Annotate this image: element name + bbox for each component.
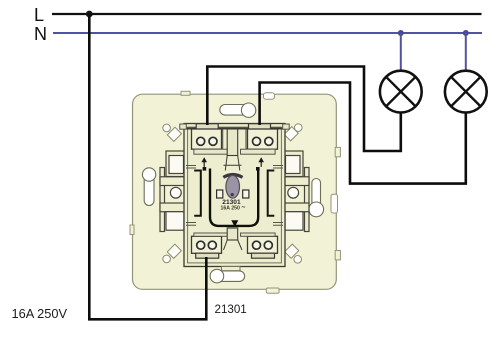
corner hole bottom-left	[163, 255, 171, 263]
top rail	[184, 128, 285, 130]
plate tab top	[181, 91, 190, 95]
channel flare lines	[224, 156, 242, 171]
keyhole slot left	[142, 168, 155, 206]
spring bracket right	[268, 171, 275, 216]
terminal cap top-left	[196, 124, 218, 130]
terminal cap top-right	[249, 124, 271, 130]
svg-text:21301: 21301	[215, 303, 247, 316]
corner hole top-right	[295, 124, 303, 132]
terminal screws bottom-left	[197, 241, 205, 249]
lip above bottom terminals	[194, 233, 229, 236]
terminal screws top-left	[197, 137, 205, 145]
pad under terminal top-right	[241, 149, 276, 154]
terminal screws top-right	[253, 137, 261, 145]
corner hole top-left	[163, 124, 171, 132]
pad under terminal top-left	[194, 149, 229, 154]
terminal box bottom-right	[248, 236, 278, 253]
plate tab right lower	[335, 251, 340, 260]
terminal box top-left	[192, 129, 222, 149]
inner frame marks left	[186, 166, 196, 226]
corner diamond bottom-right	[285, 244, 299, 258]
flange lines between top terminals	[223, 130, 246, 150]
keyhole slot bottom	[210, 269, 245, 283]
terminal screws bottom-right	[253, 241, 261, 249]
center channel bottom	[227, 228, 238, 240]
side square left	[217, 190, 223, 198]
tab below block	[222, 267, 241, 271]
plate tab left	[130, 225, 134, 235]
plate tab right upper	[335, 147, 340, 156]
side square right	[243, 190, 249, 198]
spring bracket left	[194, 171, 201, 216]
terminal cap bottom-right	[252, 253, 275, 258]
wire N to lamp E2	[465, 33, 467, 71]
plate notch right	[331, 194, 338, 213]
terminal cap bottom-left	[196, 253, 219, 258]
junction dot on L	[86, 11, 93, 18]
line rail L	[52, 13, 482, 15]
lamp E2	[445, 71, 487, 113]
svg-text:16A 250 ~: 16A 250 ~	[221, 205, 246, 212]
svg-text:16A 250V: 16A 250V	[12, 306, 68, 321]
post top-right	[283, 124, 290, 129]
rocker contact staple	[210, 169, 258, 226]
plate notch top	[264, 93, 275, 100]
terminal box bottom-left	[192, 236, 222, 253]
contact dot left	[203, 167, 207, 171]
inner frame marks right	[273, 166, 283, 226]
line rail N	[53, 32, 482, 34]
corner diamond top-left	[167, 127, 181, 141]
junction dot N to lamp E2	[463, 30, 469, 36]
switch S1 mounting plate	[130, 91, 340, 293]
right claw assembly	[283, 151, 309, 232]
corner diamond bottom-left	[167, 244, 181, 258]
wire switch top-right terminal to lamp E2	[260, 83, 466, 184]
post top-left	[180, 124, 187, 129]
rocker arrowhead	[231, 220, 238, 227]
wire switch top-left terminal to lamp E1	[207, 67, 400, 152]
corner diamond top-right	[284, 127, 298, 141]
svg-text:N: N	[34, 24, 47, 44]
contact dot right	[256, 167, 260, 171]
arrow indicator right	[258, 157, 264, 167]
lamp E1	[380, 71, 422, 113]
junction dot N to lamp E1	[398, 30, 404, 36]
arrow indicator left	[201, 157, 207, 167]
center channel top	[227, 129, 238, 156]
keyhole slot top	[220, 103, 256, 117]
wire N to lamp E1	[400, 33, 402, 71]
keyhole slot right	[309, 179, 324, 217]
actuator plunger	[226, 175, 240, 198]
wire L feed to switch bottom terminal	[89, 14, 206, 319]
svg-text:L: L	[34, 5, 44, 25]
switch S1 mechanism block	[180, 124, 289, 271]
left claw assembly	[160, 151, 186, 232]
plate tab bottom	[266, 288, 279, 293]
corner hole bottom-right	[294, 255, 302, 263]
terminal box top-right	[248, 129, 278, 149]
actuator collar	[223, 175, 242, 178]
